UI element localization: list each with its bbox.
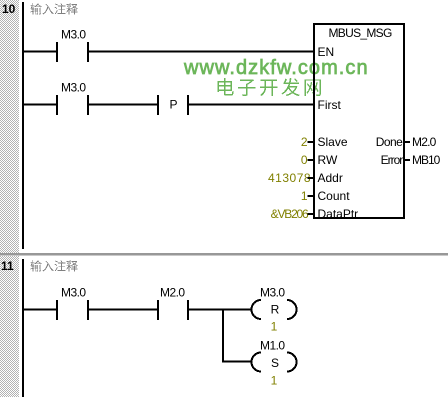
svg-text:P: P [170, 98, 178, 112]
svg-text:1: 1 [301, 189, 308, 203]
wire rail to contact M3.0 rung2 [24, 104, 56, 106]
output stub Done [404, 141, 410, 143]
svg-text:M3.0: M3.0 [61, 286, 86, 300]
left power rail network 10 [22, 2, 24, 249]
svg-text:10: 10 [2, 2, 16, 16]
svg-text:EN: EN [318, 45, 335, 59]
svg-text:M3.0: M3.0 [61, 81, 86, 95]
contact M3.0 rung3 [56, 300, 89, 320]
watermark 电子开发网 [217, 78, 320, 96]
svg-text:413078: 413078 [268, 171, 311, 185]
contact M3.0 rung1 [56, 42, 89, 62]
output stub Error [404, 159, 410, 161]
svg-text:&VB206: &VB206 [271, 207, 309, 221]
network 11 comment 输入注释 [31, 260, 78, 271]
branch vertical wire [222, 309, 224, 363]
wire branch to coil S [222, 361, 252, 363]
contact P positive edge [157, 95, 189, 115]
svg-text:DataPtr: DataPtr [318, 207, 359, 221]
network list margin (dither) [0, 0, 19, 397]
svg-text:Done: Done [376, 135, 403, 149]
network 10 comment 输入注释 [31, 3, 78, 14]
input stub Count [308, 195, 315, 197]
contact M3.0 rung2 [56, 95, 89, 115]
input stub Slave [308, 141, 315, 143]
svg-text:MB10: MB10 [412, 153, 441, 167]
svg-text:M2.0: M2.0 [412, 135, 437, 149]
wire M2.0 to coil R and branch [189, 309, 252, 311]
left power rail network 11 [22, 259, 24, 397]
svg-text:1: 1 [271, 374, 278, 388]
svg-text:M3.0: M3.0 [61, 28, 86, 42]
wire rail to contact M3.0 rung3 [24, 309, 56, 311]
wire M3.0 to P contact [89, 104, 157, 106]
svg-text:M2.0: M2.0 [160, 286, 185, 300]
svg-text:Error: Error [381, 153, 404, 167]
svg-text:0: 0 [301, 153, 308, 167]
network separator line [0, 253, 448, 255]
svg-text:S: S [271, 356, 279, 370]
wire P contact to First [189, 104, 313, 106]
coil R (reset M3.0) [252, 300, 297, 319]
svg-text:First: First [318, 98, 342, 112]
function block MBUS_MSG box [314, 24, 404, 218]
wire M3.0 to M2.0 rung3 [89, 309, 157, 311]
input stub RW [308, 159, 315, 161]
input stub DataPtr [308, 213, 315, 215]
svg-text:Count: Count [318, 189, 351, 203]
wire contact M3.0 to EN [89, 51, 313, 53]
svg-text:Addr: Addr [318, 171, 343, 185]
coil S (set M1.0) [252, 353, 297, 372]
input stub Addr [308, 177, 315, 179]
svg-text:MBUS_MSG: MBUS_MSG [329, 26, 392, 40]
svg-text:1: 1 [271, 320, 278, 334]
svg-text:M1.0: M1.0 [260, 339, 285, 353]
svg-text:11: 11 [1, 259, 14, 273]
svg-text:RW: RW [318, 153, 338, 167]
svg-text:M3.0: M3.0 [260, 286, 285, 300]
svg-text:R: R [271, 302, 280, 316]
wire rail to contact M3.0 rung1 [24, 51, 56, 53]
svg-text:Slave: Slave [318, 135, 348, 149]
svg-text:www.dzkfw.com.cn: www.dzkfw.com.cn [183, 57, 369, 79]
contact M2.0 rung3 [157, 300, 189, 320]
svg-text:2: 2 [301, 135, 308, 149]
